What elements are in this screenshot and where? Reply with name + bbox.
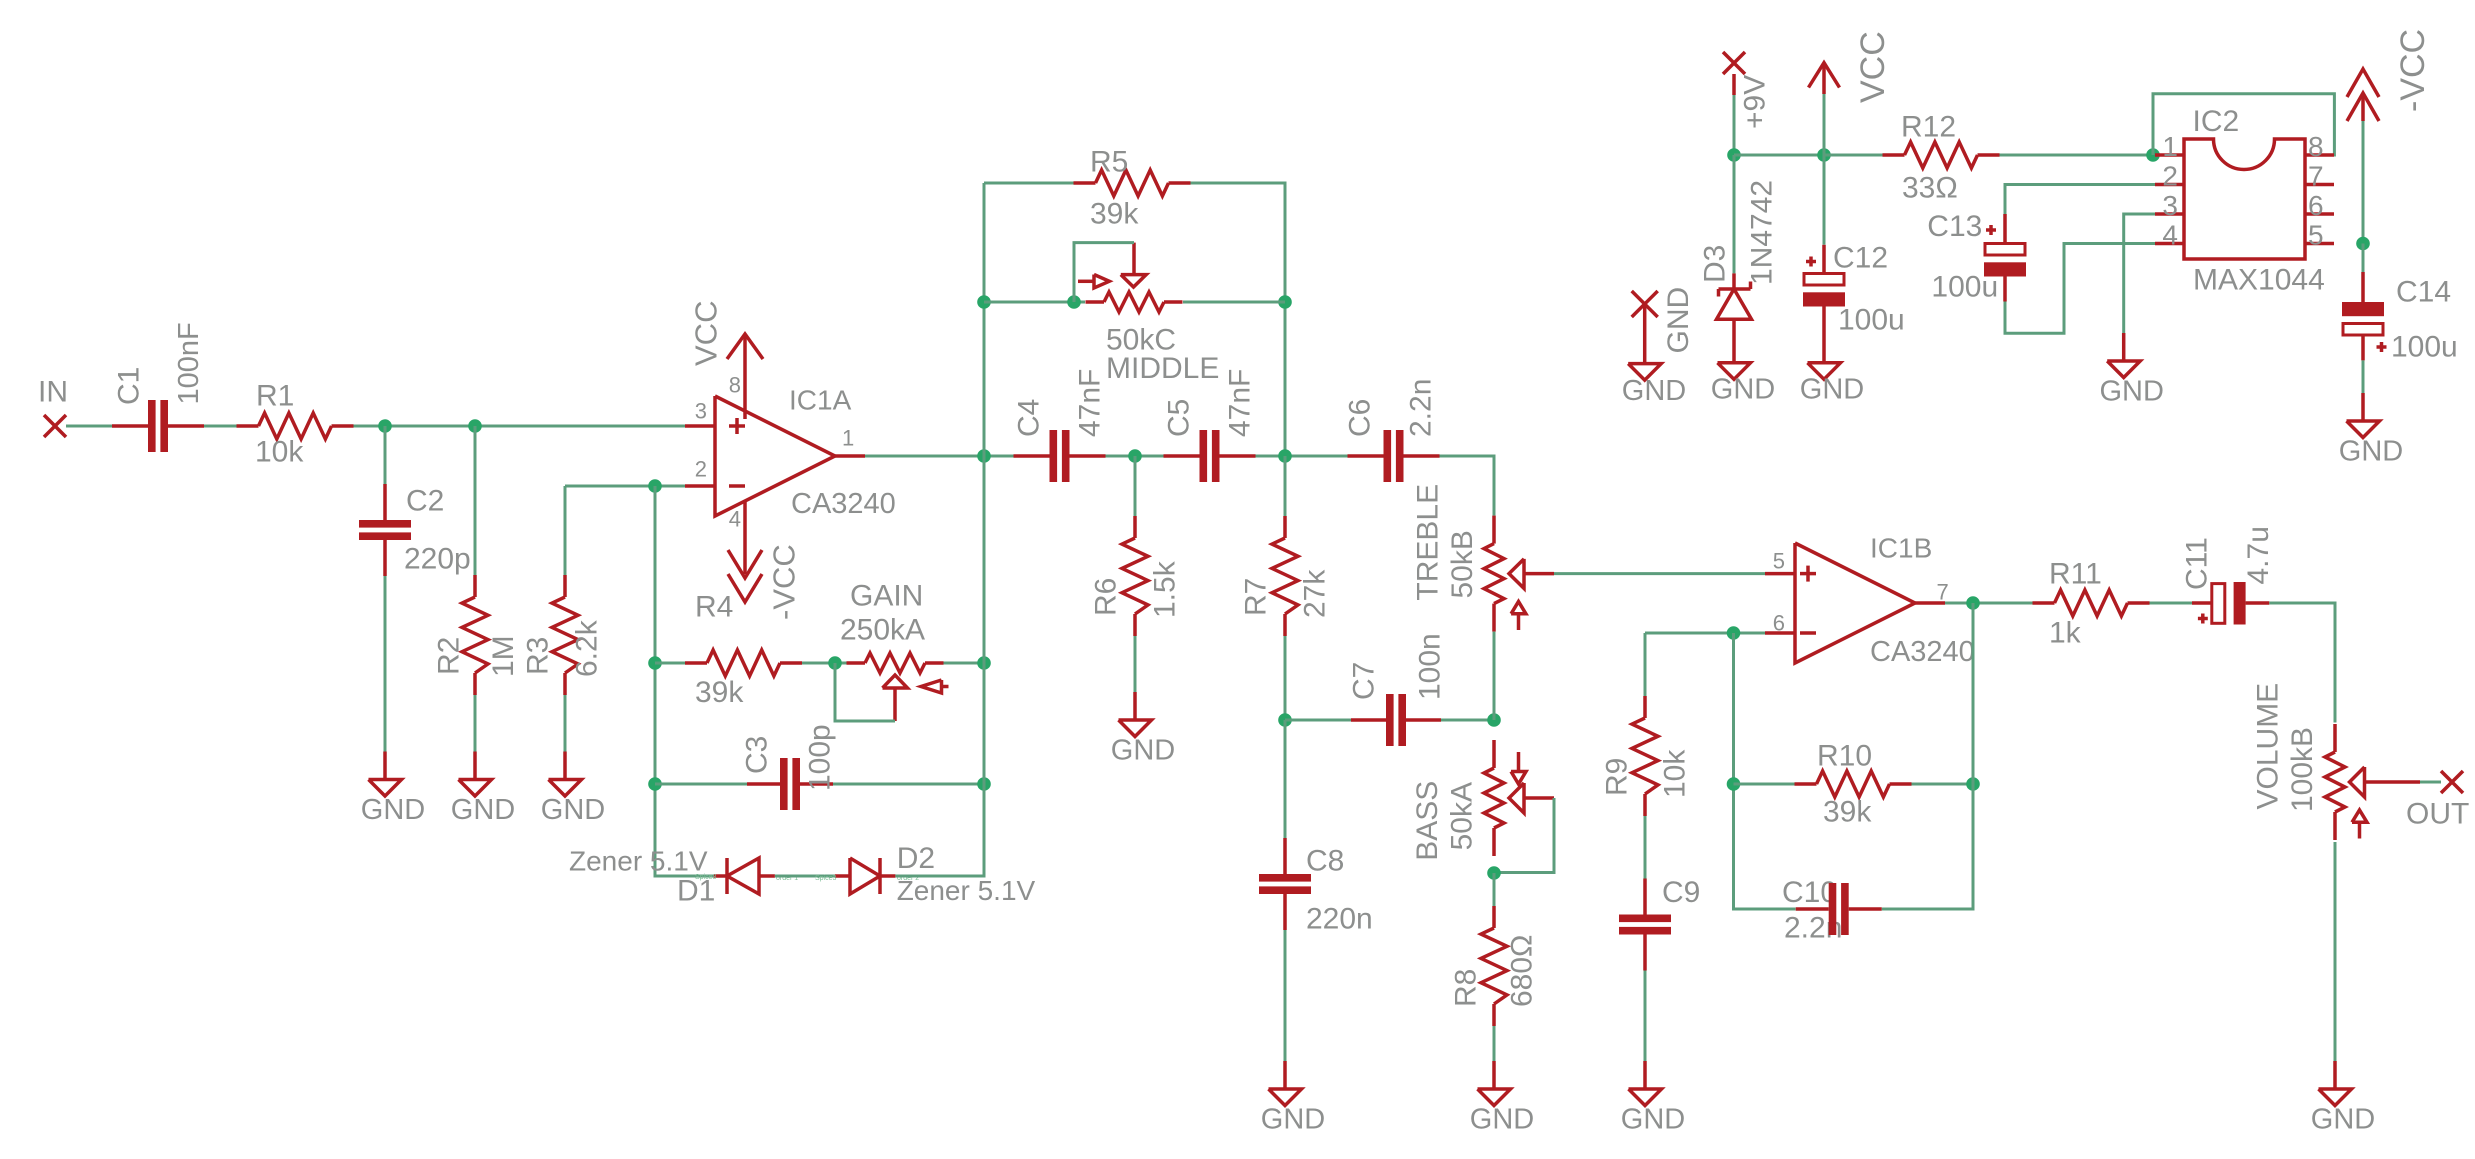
- ground: [2339, 393, 2403, 468]
- svg-text:100kB: 100kB: [2286, 727, 2319, 812]
- resistor R1: [237, 380, 354, 469]
- svg-text:C1: C1: [113, 367, 146, 405]
- node junction: [828, 656, 842, 670]
- svg-text:Spice3: Spice3: [815, 875, 837, 882]
- node junction: [1817, 148, 1831, 162]
- wire: [1733, 155, 1736, 273]
- wire: [1734, 633, 1796, 909]
- resistor R7: [1240, 516, 1332, 636]
- svg-text:GND: GND: [1621, 1104, 1685, 1136]
- svg-text:R2: R2: [433, 637, 466, 675]
- wire: [984, 301, 1085, 304]
- svg-text:R7: R7: [1240, 578, 1273, 616]
- svg-text:4: 4: [2162, 220, 2178, 251]
- wire: [2150, 602, 2193, 605]
- svg-text:C14: C14: [2396, 276, 2451, 309]
- capacitor C11 polarized: [2181, 526, 2276, 624]
- wire: [1493, 873, 1496, 906]
- svg-text:OUT: OUT: [2406, 798, 2469, 831]
- svg-text:C3: C3: [741, 736, 774, 774]
- wire: [1493, 1026, 1496, 1061]
- wire: [2362, 244, 2365, 273]
- resistor R3: [522, 575, 604, 695]
- svg-text:250kA: 250kA: [840, 614, 925, 647]
- wire: [1284, 720, 1287, 838]
- diode D2 zener: [835, 842, 1036, 906]
- wire: [474, 695, 477, 752]
- svg-text:Spice3: Spice3: [695, 874, 717, 881]
- svg-text:1N4742: 1N4742: [1746, 180, 1779, 285]
- svg-text:C5: C5: [1163, 399, 1196, 437]
- pin OUT: [2406, 771, 2469, 831]
- svg-text:VCC: VCC: [689, 301, 724, 366]
- ground: [2099, 333, 2163, 408]
- svg-text:D2: D2: [897, 842, 935, 875]
- wire: [1284, 930, 1287, 1061]
- resistor R4: [685, 591, 802, 710]
- svg-text:R6: R6: [1090, 578, 1123, 616]
- wire: [1644, 633, 1647, 696]
- svg-text:1k: 1k: [2049, 617, 2082, 650]
- wire: [1285, 719, 1361, 722]
- wire: [1823, 155, 1826, 245]
- svg-text:10k: 10k: [255, 436, 304, 469]
- svg-text:3: 3: [695, 399, 707, 424]
- spice text: [695, 874, 798, 882]
- svg-text:CA3240: CA3240: [1870, 636, 1975, 668]
- node junction: [977, 449, 991, 463]
- svg-text:GND: GND: [451, 794, 515, 826]
- wire: [1191, 183, 1286, 456]
- svg-text:C7: C7: [1348, 662, 1381, 700]
- svg-text:R10: R10: [1817, 740, 1872, 773]
- wire: [204, 425, 237, 428]
- wire: [2362, 121, 2365, 244]
- capacitor C8: [1259, 838, 1373, 936]
- wire pin3 net: [2124, 214, 2155, 333]
- svg-text:100p: 100p: [804, 724, 837, 791]
- svg-text:8: 8: [729, 373, 741, 398]
- node junction: [977, 777, 991, 791]
- capacitor C3: [741, 724, 837, 810]
- wire: [833, 783, 984, 786]
- ground: [2311, 1061, 2375, 1136]
- svg-text:R5: R5: [1090, 146, 1128, 179]
- node junction: [977, 656, 991, 670]
- resistor R11: [2033, 558, 2150, 650]
- svg-text:C9: C9: [1662, 876, 1700, 909]
- wire left column: [655, 486, 714, 876]
- node junction: [2356, 237, 2370, 251]
- IC IC2 MAX1044: [2155, 105, 2334, 297]
- node junction: [2146, 148, 2160, 162]
- wire: [1284, 456, 1287, 516]
- wire: [895, 183, 984, 876]
- svg-text:R3: R3: [522, 637, 555, 675]
- svg-text:C12: C12: [1833, 242, 1888, 275]
- wire: [944, 662, 985, 665]
- wire wiper loop: [835, 663, 895, 721]
- node junction: [1278, 295, 1292, 309]
- svg-text:GND: GND: [1111, 735, 1175, 767]
- svg-text:33Ω: 33Ω: [1902, 172, 1958, 205]
- svg-text:10k: 10k: [1659, 749, 1692, 798]
- svg-text:GND: GND: [1261, 1104, 1325, 1136]
- svg-text:C4: C4: [1013, 399, 1046, 437]
- svg-text:Zener 5.1V: Zener 5.1V: [569, 846, 708, 877]
- wire: [384, 426, 387, 489]
- node junction: [648, 479, 662, 493]
- capacitor C13 polarized 100u: [1927, 210, 2026, 304]
- capacitor C14 polarized 100u: [2342, 272, 2458, 364]
- svg-text:100u: 100u: [2391, 331, 2458, 364]
- wire: [1733, 95, 1736, 155]
- svg-text:MAX1044: MAX1044: [2193, 264, 2325, 297]
- wire: [1644, 816, 1647, 879]
- wire: [1882, 603, 1973, 909]
- wire: [1912, 783, 1974, 786]
- svg-text:100nF: 100nF: [173, 322, 205, 404]
- wire: [1493, 632, 1496, 720]
- trimmer MIDDLE 50kC: [1078, 243, 1219, 385]
- svg-text:R12: R12: [1901, 111, 1956, 144]
- pin GND: [1632, 287, 1695, 364]
- svg-text:R8: R8: [1450, 969, 1483, 1007]
- wire wiper loop: [1074, 243, 1134, 302]
- svg-text:2: 2: [695, 457, 707, 482]
- capacitor C7: [1348, 633, 1447, 746]
- trimmer GAIN 250kA: [840, 580, 949, 722]
- svg-text:GND: GND: [2339, 436, 2403, 468]
- wire: [2362, 360, 2365, 393]
- svg-text:C13: C13: [1927, 210, 1982, 243]
- wire: [1644, 971, 1647, 1062]
- svg-text:680Ω: 680Ω: [1506, 935, 1539, 1007]
- svg-text:7: 7: [1937, 580, 1949, 605]
- wire: [1440, 456, 1495, 516]
- potentiometer VOLUME 100kB: [2252, 683, 2421, 840]
- spice text: [815, 875, 919, 882]
- wire: [1134, 456, 1137, 516]
- supply -VCC arrow: [2347, 29, 2432, 121]
- capacitor C4: [1013, 369, 1107, 482]
- svg-text:47nF: 47nF: [1224, 369, 1257, 437]
- wire: [1134, 636, 1137, 692]
- diode D1 zener: [569, 846, 775, 908]
- ground C12: [1800, 363, 1864, 406]
- svg-text:100u: 100u: [1838, 304, 1905, 337]
- capacitor C5: [1163, 369, 1257, 482]
- wire: [1734, 783, 1795, 786]
- wire: [2000, 154, 2154, 157]
- wire: [1183, 301, 1285, 304]
- wire: [66, 425, 114, 428]
- capacitor C9: [1619, 876, 1700, 970]
- svg-text:-VCC: -VCC: [2394, 29, 2432, 112]
- svg-text:220n: 220n: [1306, 903, 1373, 936]
- node junction: [648, 777, 662, 791]
- svg-text:GND: GND: [541, 794, 605, 826]
- wire: [1824, 154, 1883, 157]
- svg-text:IC1B: IC1B: [1870, 533, 1932, 564]
- wire: [2269, 603, 2335, 723]
- svg-text:R1: R1: [256, 380, 294, 413]
- svg-text:GND: GND: [2311, 1104, 2375, 1136]
- resistor R6: [1090, 516, 1182, 636]
- wire pin6 net: [1645, 632, 1765, 635]
- svg-text:6: 6: [2308, 190, 2324, 221]
- node junction: [1966, 777, 1980, 791]
- wire pin1-pin8 loop: [2153, 94, 2334, 155]
- wire pin2 net: [565, 485, 685, 488]
- capacitor C10 labels: [1782, 876, 1842, 944]
- wire: [1106, 455, 1164, 458]
- svg-text:R11: R11: [2049, 558, 2102, 591]
- svg-text:2: 2: [2162, 161, 2178, 192]
- wire: [1441, 719, 1494, 722]
- wire: [1256, 455, 1348, 458]
- capacitor C2: [359, 484, 471, 576]
- resistor R8: [1450, 906, 1539, 1026]
- svg-text:100u: 100u: [1931, 271, 1998, 304]
- node junction: [1278, 449, 1292, 463]
- node junction: [468, 419, 482, 433]
- wire: [984, 182, 1074, 185]
- svg-text:C6: C6: [1344, 399, 1377, 437]
- svg-text:27k: 27k: [1299, 569, 1332, 618]
- wire output: [865, 455, 1014, 458]
- ground: [361, 752, 425, 827]
- node junction: [648, 656, 662, 670]
- capacitor C1: [112, 322, 205, 452]
- node junction: [1487, 713, 1501, 727]
- op-amp IC1B: [1765, 533, 1975, 669]
- svg-text:BASS: BASS: [1411, 781, 1444, 861]
- potentiometer TREBLE 50kB: [1412, 484, 1555, 632]
- pin IN: [38, 376, 68, 438]
- capacitor C12 polarized 100u: [1803, 242, 1905, 363]
- wire: [354, 425, 686, 428]
- svg-text:39k: 39k: [1823, 796, 1872, 829]
- svg-text:1M: 1M: [487, 635, 520, 677]
- svg-text:6.2k: 6.2k: [571, 619, 604, 677]
- svg-text:5: 5: [1773, 549, 1785, 574]
- resistor R9: [1601, 696, 1692, 816]
- wire: [564, 695, 567, 752]
- wire: [1734, 154, 1824, 157]
- svg-text:39k: 39k: [1090, 198, 1139, 231]
- svg-text:VCC: VCC: [1854, 31, 1892, 103]
- op-amp IC1A: [685, 301, 896, 620]
- svg-text:5: 5: [2308, 220, 2324, 251]
- wire: [2334, 842, 2337, 1061]
- node junction: [1128, 449, 1142, 463]
- svg-text:MIDDLE: MIDDLE: [1106, 352, 1219, 385]
- svg-text:C11: C11: [2181, 537, 2214, 590]
- node junction: [1727, 626, 1741, 640]
- ground: [1470, 1061, 1534, 1136]
- ground: [541, 752, 605, 827]
- wire: [802, 662, 847, 665]
- node junction: [1278, 713, 1292, 727]
- wire: [775, 875, 835, 878]
- wire: [384, 576, 387, 752]
- svg-text:4: 4: [729, 507, 741, 532]
- ground D3: [1711, 363, 1775, 406]
- svg-text:GAIN: GAIN: [850, 580, 923, 613]
- svg-text:C2: C2: [406, 485, 444, 518]
- node junction: [1487, 866, 1501, 880]
- svg-text:VOLUME: VOLUME: [2252, 683, 2285, 810]
- svg-text:GND: GND: [1622, 375, 1686, 407]
- ground: [1621, 1061, 1685, 1136]
- node junction: [1966, 596, 1980, 610]
- svg-text:6: 6: [1773, 611, 1785, 636]
- svg-text:GND: GND: [1711, 374, 1775, 406]
- resistor R10: [1795, 740, 1912, 829]
- svg-text:D3: D3: [1699, 245, 1732, 283]
- svg-text:50kA: 50kA: [1446, 782, 1479, 850]
- wire: [1284, 636, 1287, 720]
- svg-text:GND: GND: [1800, 374, 1864, 406]
- wire: [2420, 781, 2441, 784]
- wire: [564, 486, 567, 577]
- svg-text:3: 3: [2162, 190, 2178, 221]
- resistor R2: [433, 575, 521, 695]
- svg-text:IC1A: IC1A: [789, 385, 852, 416]
- capacitor C6: [1344, 379, 1440, 482]
- resistor R5: [1074, 146, 1191, 231]
- wire: [474, 426, 477, 577]
- svg-text:39k: 39k: [695, 676, 744, 709]
- svg-text:2.2n: 2.2n: [1405, 379, 1438, 437]
- pin +9V: [1723, 52, 1772, 129]
- supply VCC arrow: [1809, 31, 1893, 103]
- svg-text:8: 8: [2308, 131, 2324, 162]
- wire: [655, 662, 685, 665]
- node junction: [378, 419, 392, 433]
- svg-text:-VCC: -VCC: [767, 544, 802, 620]
- diode D3 zener 1N4742: [1699, 180, 1779, 363]
- node junction: [977, 295, 991, 309]
- resistor R12 33ohm: [1883, 111, 2000, 205]
- wire wiper to IC1B: [1554, 572, 1765, 575]
- svg-text:1.5k: 1.5k: [1149, 560, 1182, 618]
- svg-text:50kB: 50kB: [1446, 530, 1479, 598]
- ground: [1111, 692, 1175, 767]
- svg-text:GND: GND: [1470, 1104, 1534, 1136]
- svg-text:IN: IN: [38, 376, 68, 409]
- node junction: [1727, 148, 1741, 162]
- wire: [1945, 602, 2033, 605]
- svg-text:1: 1: [2162, 131, 2178, 162]
- node junction: [1727, 777, 1741, 791]
- svg-text:GND: GND: [361, 794, 425, 826]
- ground: [1261, 1061, 1325, 1136]
- ground: [451, 752, 515, 827]
- wire C13 bottom loop: [2005, 244, 2155, 334]
- wire pin2 net: [2005, 185, 2155, 215]
- svg-text:IC2: IC2: [2193, 105, 2240, 138]
- svg-text:47nF: 47nF: [1074, 369, 1107, 437]
- ground pin: [1622, 364, 1686, 407]
- svg-text:R4: R4: [695, 591, 733, 624]
- svg-text:7: 7: [2308, 161, 2324, 192]
- svg-text:+9V: +9V: [1739, 75, 1772, 129]
- svg-text:C8: C8: [1306, 845, 1344, 878]
- wire: [1823, 94, 1826, 155]
- svg-text:TREBLE: TREBLE: [1412, 484, 1445, 601]
- svg-text:1: 1: [842, 426, 854, 451]
- svg-text:CA3240: CA3240: [791, 488, 896, 520]
- svg-text:GND: GND: [1662, 287, 1695, 354]
- wire: [655, 783, 747, 786]
- svg-text:GND: GND: [2099, 376, 2163, 408]
- svg-text:R9: R9: [1601, 758, 1634, 796]
- node junction: [1067, 295, 1081, 309]
- svg-text:100n: 100n: [1414, 633, 1447, 700]
- svg-text:4.7u: 4.7u: [2242, 526, 2275, 584]
- svg-text:220p: 220p: [404, 543, 471, 576]
- capacitor C10: [1796, 883, 1882, 935]
- potentiometer BASS 50kA: [1411, 740, 1554, 861]
- wire wiper loop: [1494, 798, 1554, 873]
